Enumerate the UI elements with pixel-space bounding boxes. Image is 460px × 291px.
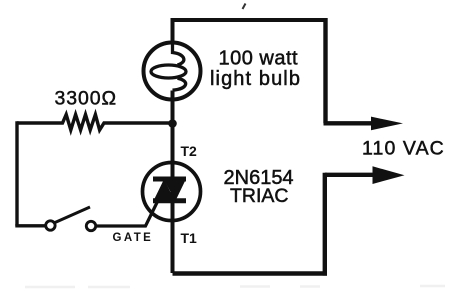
lamp DS1: filament upper hook	[173, 44, 184, 65]
triac Q1: bottom bar (T1 terminal bar)	[153, 198, 186, 203]
resistor R1 3300 ohm: left lead, zigzag, right lead	[17, 115, 169, 131]
lamp DS1: filament loop ellipse	[151, 65, 186, 78]
switch S1: left contact circle	[46, 221, 55, 230]
svg-text:100 watt: 100 watt	[219, 48, 299, 70]
wire: gate lead from switch to triac	[96, 202, 158, 227]
switch S1: lever arm	[55, 207, 90, 223]
wire: top horizontal from bulb branch to right branch	[171, 18, 328, 22]
svg-text:TRIAC: TRIAC	[230, 185, 289, 207]
svg-text:T2: T2	[181, 143, 198, 159]
wire: top arrow shaft	[324, 121, 375, 125]
arrowhead: top 110 VAC output	[371, 117, 403, 131]
wire: bottom arrow shaft	[325, 173, 376, 177]
svg-text:110 VAC: 110 VAC	[362, 138, 445, 160]
wire: left vertical	[15, 121, 18, 226]
wire: right upper vertical	[323, 18, 327, 123]
lamp DS1: bulb circle	[144, 43, 201, 100]
speck: faint scan marks at bottom edge	[25, 286, 445, 287]
triac Q1: top bar (T2 terminal bar)	[153, 177, 186, 182]
wire: left bottom horizontal to switch	[15, 224, 46, 227]
wire: vertical from bulb through triac to bottom wire	[171, 91, 175, 274]
svg-text:T1: T1	[181, 230, 198, 246]
svg-text:GATE: GATE	[113, 232, 154, 244]
svg-text:3300Ω: 3300Ω	[55, 88, 117, 110]
svg-text:light bulb: light bulb	[210, 68, 301, 90]
node: junction of resistor and main branch	[168, 119, 177, 128]
switch S1: right contact circle	[86, 221, 95, 230]
triac Q1: body circle	[143, 163, 201, 221]
triac Q1: right triangle (points down)	[163, 179, 186, 201]
lamp DS1: filament lower hook	[173, 78, 186, 90]
wire: vertical from top wire to bulb	[171, 18, 175, 44]
arrowhead: bottom 110 VAC output	[373, 166, 405, 184]
speck: apostrophe artifact above top wire	[243, 4, 246, 10]
wire: bottom horizontal	[173, 271, 328, 275]
triac Q1: left triangle (points up)	[154, 179, 175, 200]
wire: right lower vertical	[323, 173, 327, 276]
